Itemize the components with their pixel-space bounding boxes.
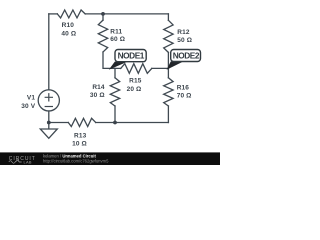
node NODE2 pointer <box>167 61 184 69</box>
svg-text:R16: R16 <box>177 84 190 91</box>
V1 minus sign <box>45 106 52 108</box>
label R11 <box>110 29 125 44</box>
resistor R15 <box>121 64 152 74</box>
svg-text:R11: R11 <box>110 29 122 36</box>
svg-text:60 Ω: 60 Ω <box>110 36 125 43</box>
node NODE2 <box>171 50 201 62</box>
wire R16 top lead <box>167 68 169 77</box>
svg-text:40 Ω: 40 Ω <box>61 31 76 38</box>
resistor R12 <box>164 20 173 52</box>
label R10 <box>61 22 76 38</box>
wire R14 top lead <box>114 68 116 77</box>
svg-text:R10: R10 <box>62 22 75 29</box>
label R14 <box>90 84 105 99</box>
wire V1 bottom lead <box>48 111 50 123</box>
node NODE1 pointer <box>109 62 128 70</box>
V1 plus sign <box>45 94 52 101</box>
wire R16 bottom lead <box>167 106 169 123</box>
wire top-left vertical <box>48 14 50 90</box>
resistor R13 <box>68 118 95 126</box>
svg-text:R13: R13 <box>74 133 87 140</box>
svg-text:V1: V1 <box>27 94 35 101</box>
resistor R10 <box>57 10 85 18</box>
wire mid rail right segment <box>152 67 169 69</box>
resistor R14 <box>110 78 119 106</box>
ground <box>40 123 57 139</box>
svg-text:http://circuitlab.com/c762gwfu: http://circuitlab.com/c762gwfunvm5 <box>43 159 109 164</box>
wire R12 top lead <box>167 14 169 20</box>
svg-text:50 Ω: 50 Ω <box>177 37 192 44</box>
resistor R11 <box>98 20 107 52</box>
wire R11 top lead <box>102 14 104 20</box>
wire R12 bottom lead <box>167 52 169 68</box>
label R15 <box>127 78 142 94</box>
label R16 <box>177 84 192 99</box>
wire top rail left segment <box>49 13 58 15</box>
wire bottom rail left segment <box>49 122 69 124</box>
label R12 <box>177 29 192 44</box>
svg-text:NODE1: NODE1 <box>118 51 145 61</box>
svg-text:R14: R14 <box>92 84 105 91</box>
svg-text:R12: R12 <box>177 29 190 36</box>
svg-text:R15: R15 <box>129 78 142 85</box>
watermark CircuitLab logo <box>9 156 36 165</box>
svg-text:20 Ω: 20 Ω <box>127 86 142 93</box>
svg-text:NODE2: NODE2 <box>173 51 200 61</box>
resistor R16 <box>164 78 173 106</box>
watermark credit text <box>43 154 109 164</box>
node junction dot V1 bottom <box>47 121 51 125</box>
svg-text:30 Ω: 30 Ω <box>90 92 105 99</box>
wire bottom rail right segment <box>96 122 169 124</box>
node NODE1 <box>115 50 146 62</box>
svg-text:LAB: LAB <box>24 160 32 165</box>
voltage source V1 <box>38 90 59 111</box>
svg-text:30 V: 30 V <box>21 103 35 110</box>
wire R14 bottom lead <box>114 106 116 123</box>
svg-text:10 Ω: 10 Ω <box>72 141 87 148</box>
label V1 <box>21 94 35 110</box>
label R13 <box>72 133 87 148</box>
node junction dot top <box>101 12 105 16</box>
wire top rail right segment <box>85 13 168 15</box>
watermark bar <box>0 152 220 165</box>
wire R11 bottom lead with corner to node1 <box>103 52 121 68</box>
node junction dot R14 bottom <box>113 121 117 125</box>
watermark logo squiggle <box>9 160 22 164</box>
svg-text:70 Ω: 70 Ω <box>177 92 192 99</box>
